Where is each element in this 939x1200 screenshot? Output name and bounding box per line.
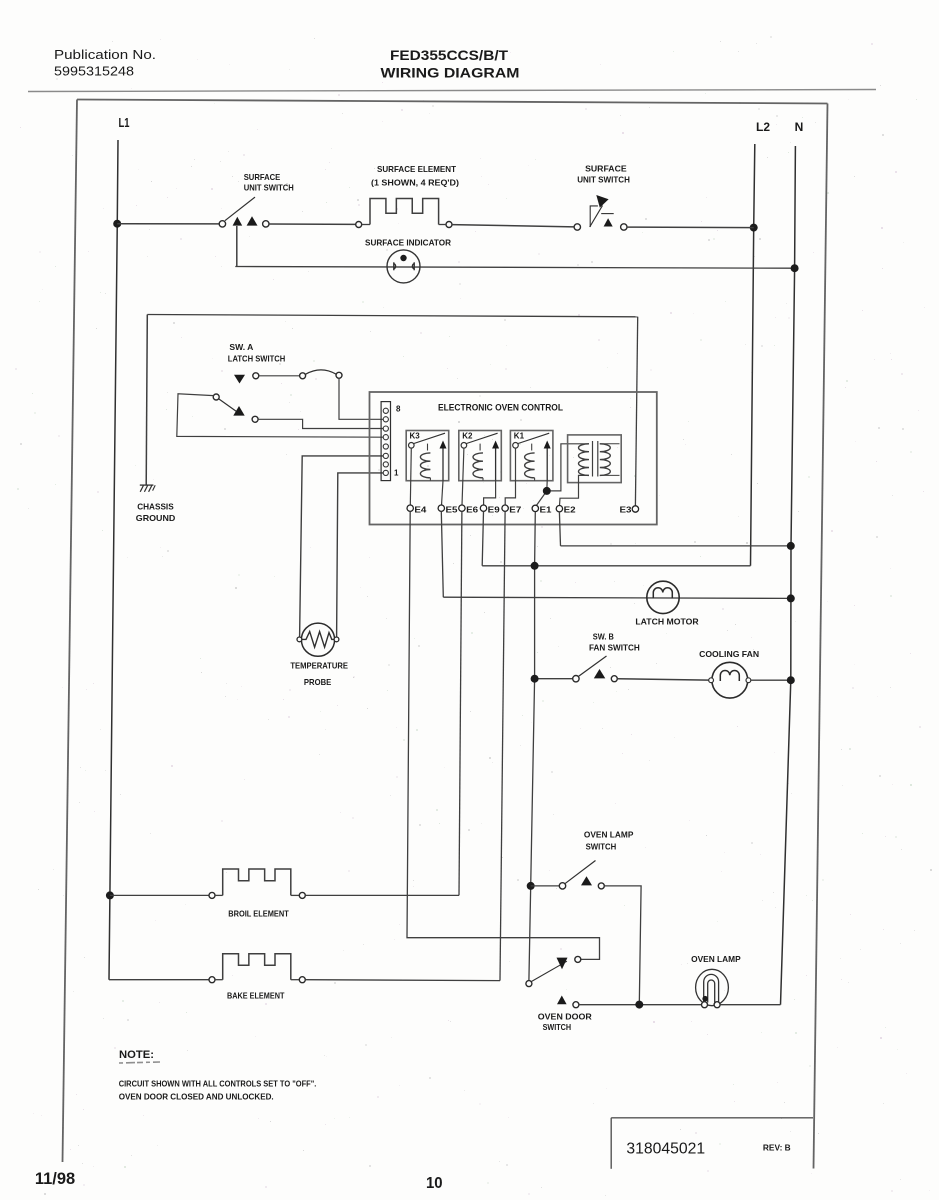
node L2 label (756, 120, 770, 134)
oven door switch NC contact (557, 956, 581, 969)
svg-text:SURFACE: SURFACE (244, 172, 281, 182)
diagram frame right edge (814, 104, 828, 1169)
svg-text:SW. B: SW. B (593, 632, 614, 642)
wire top rail segment d (switch2 to L2) (627, 226, 754, 229)
terminal E9 circle (480, 505, 486, 511)
wire E6 to broil element (459, 511, 462, 895)
lamp: surface indicator (387, 250, 420, 283)
label oven door switch line2 (543, 1022, 572, 1032)
junction fan line / N rail (787, 676, 795, 684)
chassis ground symbol (140, 485, 155, 492)
resistor: temperature probe (297, 623, 339, 656)
wire L2 branch horizontal (482, 565, 750, 567)
label oven lamp switch line1 (584, 830, 634, 840)
label oven lamp (691, 954, 741, 964)
svg-text:(1 SHOWN, 4 REQ'D): (1 SHOWN, 4 REQ'D) (371, 178, 459, 188)
note text line2 (119, 1093, 274, 1102)
diagram frame top edge (77, 100, 828, 104)
label surface unit switch 1 line1 (244, 172, 281, 182)
oven door switch NO contact (557, 996, 579, 1008)
svg-text:8: 8 (396, 405, 401, 414)
wire junction to terminal E1 (536, 491, 547, 506)
svg-text:ELECTRONIC OVEN CONTROL: ELECTRONIC OVEN CONTROL (438, 403, 563, 413)
svg-text:318045021: 318045021 (626, 1141, 705, 1158)
lamp: oven lamp (696, 969, 729, 1007)
label terminal E2 (564, 504, 576, 514)
junction E1 wire / fan line (531, 675, 539, 683)
label latch motor (635, 617, 698, 627)
label terminal E9 (488, 504, 500, 514)
svg-text:CHASSIS: CHASSIS (137, 502, 174, 512)
svg-text:E5: E5 (446, 504, 458, 514)
relay K1 (510, 431, 553, 481)
label oven lamp switch line2 (586, 842, 617, 852)
wire top rail segment a (L1 to surface unit switch 1) (117, 223, 219, 225)
label electronic oven control (438, 403, 563, 413)
label temperature probe line1 (290, 661, 348, 671)
svg-text:K2: K2 (462, 432, 473, 441)
svg-text:FAN SWITCH: FAN SWITCH (589, 643, 640, 653)
diagram frame left edge (63, 100, 78, 1163)
footer date 11/98 (35, 1169, 75, 1188)
svg-text:OVEN LAMP: OVEN LAMP (691, 954, 741, 964)
svg-text:FED355CCS/B/T: FED355CCS/B/T (390, 47, 508, 63)
svg-text:N: N (795, 120, 804, 134)
wire top rail segment c (element to surface unit switch 2) (452, 225, 574, 227)
label fan switch (589, 643, 640, 653)
title block REV: B (763, 1143, 791, 1153)
svg-text:E1: E1 (540, 504, 552, 514)
note underline smudge (119, 1062, 160, 1063)
svg-text:UNIT SWITCH: UNIT SWITCH (244, 183, 294, 193)
switch oven lamp switch (559, 861, 604, 890)
wire E4 to oven door switch NC (407, 511, 600, 959)
junction L1 / broil line (106, 891, 114, 899)
surface unit switch 1 (left) (219, 197, 269, 227)
svg-text:L2: L2 (756, 120, 770, 134)
wire relay K2 contact to terminal E9 (484, 481, 496, 506)
relay K2 (459, 431, 502, 481)
svg-text:COOLING FAN: COOLING FAN (699, 649, 759, 659)
node N label (795, 120, 804, 134)
surface element terminal circles (356, 222, 452, 228)
terminal E2 circle (556, 506, 562, 512)
wire transformer primary to terminal E2 (560, 475, 590, 505)
wire latch motor line (443, 597, 791, 598)
label connector pin 8 (396, 405, 401, 414)
header: publication no. label (54, 47, 156, 62)
svg-text:CIRCUIT SHOWN WITH ALL CONTROL: CIRCUIT SHOWN WITH ALL CONTROLS SET TO "… (119, 1080, 317, 1089)
svg-text:SW. A: SW. A (229, 342, 253, 352)
junction E2 line / N rail (787, 542, 795, 550)
junction latch motor line / N rail (787, 594, 795, 602)
header: WIRING DIAGRAM title (381, 65, 520, 81)
label latch switch (228, 354, 285, 364)
label chassis ground line2 (136, 513, 176, 523)
wire bake line left (L1 corner) (109, 979, 209, 981)
svg-text:GROUND: GROUND (136, 513, 176, 523)
wire L2 rail vertical (751, 144, 755, 566)
svg-text:BAKE ELEMENT: BAKE ELEMENT (227, 991, 285, 1001)
terminal E5 circle (438, 505, 444, 511)
svg-text:BROIL ELEMENT: BROIL ELEMENT (228, 909, 289, 919)
terminal E3 circle (632, 506, 638, 512)
wire E3 riser (635, 317, 637, 506)
wire relay K1 contact to junction (546, 481, 548, 491)
wire chassis ground horizontal run (to E3) (147, 315, 637, 317)
svg-text:E7: E7 (509, 504, 521, 514)
junction L2 / top rail (750, 224, 758, 232)
wire E1 to oven door switch common (529, 512, 535, 981)
node L1 label (119, 116, 130, 130)
wire fan line right (751, 679, 791, 681)
latch switch SW.A pole 2 (213, 394, 258, 422)
svg-text:OVEN DOOR: OVEN DOOR (538, 1012, 592, 1022)
header: publication number 5995315248 (54, 64, 134, 79)
wire junction to transformer primary (547, 444, 589, 491)
label surface element line1 (377, 164, 457, 174)
label terminal E5 (446, 504, 458, 514)
wire relay K1 common to terminal E7 (505, 448, 515, 505)
svg-text:E3: E3 (620, 505, 632, 515)
svg-text:K1: K1 (514, 432, 525, 441)
switch oven door switch common (526, 961, 567, 986)
wire E2 branch to N rail (561, 545, 791, 547)
terminal E1 circle (532, 505, 538, 511)
svg-text:Publication No.: Publication No. (54, 47, 156, 62)
svg-text:SURFACE INDICATOR: SURFACE INDICATOR (365, 238, 451, 248)
switch SW.B fan switch (573, 656, 618, 682)
surface unit switch 2 (right) (574, 195, 627, 230)
svg-text:L1: L1 (119, 116, 130, 130)
wire broil line left (110, 894, 209, 896)
wire E5 to latch motor line (441, 511, 443, 597)
label SW. B (593, 632, 614, 642)
terminal E6 circle (459, 505, 465, 511)
wire latch switch pole2 to connector pin 6 (258, 419, 383, 428)
wire relay K3 contact to terminal E5 (442, 481, 444, 506)
wire E2 down (559, 512, 560, 546)
label broil element (228, 909, 289, 919)
junction lamp switch drop / lamp line (635, 1001, 643, 1009)
footer page number 10 (426, 1175, 443, 1192)
label temperature probe line2 (304, 677, 332, 687)
label surface indicator (365, 238, 451, 248)
resistor: surface element (362, 199, 446, 225)
note text line1 (119, 1080, 317, 1089)
wire bake line right (to E7 wire) (305, 979, 500, 982)
svg-text:LATCH MOTOR: LATCH MOTOR (635, 617, 698, 627)
junction relay K1 / E1 / transformer (543, 487, 551, 495)
header: model title FED355CCS/B/T (390, 47, 508, 63)
wire connector pin 1 to temperature probe (337, 473, 384, 637)
junction E1 wire / oven lamp switch line (527, 882, 535, 890)
svg-text:E4: E4 (414, 504, 426, 514)
svg-text:SWITCH: SWITCH (543, 1022, 572, 1032)
wire surface indicator line to N (235, 267, 794, 269)
wire E9 to L2 branch (482, 511, 483, 565)
wire broil line right (to E6 wire) (305, 894, 459, 896)
wire oven lamp to N rail (720, 1004, 780, 1006)
label terminal E1 (540, 504, 552, 514)
wire oven door switch NO to oven lamp (579, 1004, 701, 1006)
label SW. A (229, 342, 253, 352)
wire connector pin 3 to temperature probe (300, 456, 384, 637)
svg-text:OVEN LAMP: OVEN LAMP (584, 830, 634, 840)
svg-text:E2: E2 (564, 504, 576, 514)
svg-text:OVEN DOOR CLOSED AND UNLOCKED.: OVEN DOOR CLOSED AND UNLOCKED. (119, 1093, 274, 1102)
header separator rule (28, 90, 876, 92)
resistor: bake element (209, 954, 305, 983)
title block top edge (611, 1117, 813, 1119)
label connector pin 1 (394, 469, 399, 478)
label terminal E7 (509, 504, 521, 514)
latch switch SW.A pole 1 (234, 370, 342, 384)
electronic oven control enclosure (370, 392, 657, 525)
svg-text:5995315248: 5995315248 (54, 64, 134, 79)
wire fan line middle (617, 679, 709, 680)
wire L1 rail vertical (109, 140, 118, 980)
svg-text:TEMPERATURE: TEMPERATURE (290, 661, 348, 671)
wire fan line left (535, 678, 573, 680)
label bake element (227, 991, 285, 1001)
wire oven lamp switch line right + drop (604, 886, 641, 1005)
wire chassis ground vertical (146, 315, 147, 485)
transformer T1 (568, 435, 622, 483)
wire E7 to bake element (500, 511, 505, 980)
svg-text:SWITCH: SWITCH (586, 842, 617, 852)
junction E1 wire / L2 branch (531, 562, 539, 570)
label NOTE heading (119, 1049, 154, 1061)
label terminal E3 (620, 505, 632, 515)
svg-text:E6: E6 (466, 504, 478, 514)
terminal E7 circle (502, 505, 508, 511)
terminal E4 circle (407, 505, 413, 511)
svg-text:SURFACE ELEMENT: SURFACE ELEMENT (377, 164, 457, 174)
relay K3 (406, 431, 449, 481)
label surface unit switch 1 line2 (244, 183, 294, 193)
connector J1 (8-pin) (381, 402, 390, 481)
svg-text:WIRING DIAGRAM: WIRING DIAGRAM (381, 65, 520, 81)
svg-text:LATCH SWITCH: LATCH SWITCH (228, 354, 285, 364)
label surface element line2 (371, 178, 459, 188)
svg-text:10: 10 (426, 1175, 443, 1192)
label oven door switch line1 (538, 1012, 592, 1022)
wire relay K2 common to terminal E6 (462, 448, 464, 505)
svg-text:K3: K3 (410, 432, 421, 441)
label terminal E6 (466, 504, 478, 514)
svg-text:11/98: 11/98 (35, 1169, 75, 1188)
label surface unit switch 2 line2 (577, 175, 630, 185)
svg-text:UNIT SWITCH: UNIT SWITCH (577, 175, 630, 185)
wire top rail segment b (switch1 to surface element) (269, 223, 356, 225)
motor: cooling fan (709, 662, 751, 698)
label surface unit switch 2 line1 (585, 164, 627, 174)
title block part number 318045021 (626, 1141, 705, 1158)
wire N rail vertical (781, 146, 796, 1005)
junction L1 / top rail (113, 220, 121, 228)
svg-text:PROBE: PROBE (304, 677, 332, 687)
label terminal E4 (414, 504, 426, 514)
svg-text:REV: B: REV: B (763, 1143, 791, 1153)
wire relay K3 common to terminal E4 (410, 448, 411, 505)
wire oven lamp switch line left (531, 885, 560, 887)
resistor: broil element (209, 869, 305, 898)
title block left edge (610, 1118, 612, 1169)
svg-text:NOTE:: NOTE: (119, 1049, 154, 1061)
label cooling fan (699, 649, 759, 659)
wire latch switch pole1 to connector pin 7 (339, 378, 383, 419)
wire surface indicator tap (drop from switch 1) (236, 226, 238, 266)
junction surface indicator line / N rail (791, 264, 799, 272)
svg-text:E9: E9 (488, 504, 500, 514)
svg-text:SURFACE: SURFACE (585, 164, 627, 174)
label chassis ground line1 (137, 502, 174, 512)
svg-text:1: 1 (394, 469, 399, 478)
motor: latch motor (647, 581, 679, 613)
wire latch switch loop to connector pin 5 (177, 394, 384, 437)
